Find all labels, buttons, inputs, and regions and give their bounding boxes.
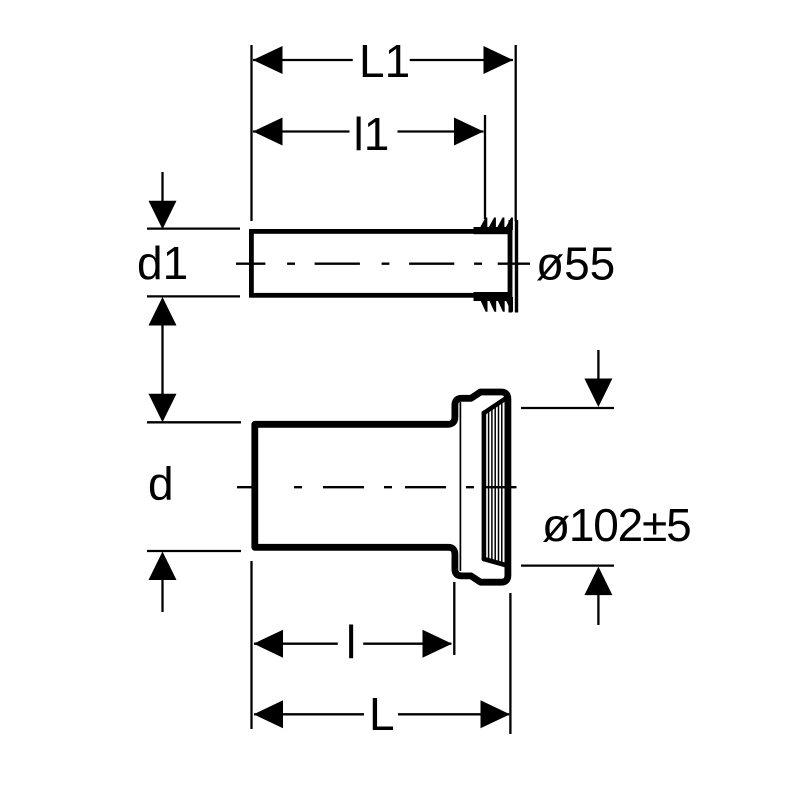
svg-text:d: d bbox=[148, 458, 174, 510]
svg-text:ø55: ø55 bbox=[536, 238, 615, 290]
svg-text:L1: L1 bbox=[359, 35, 410, 87]
svg-text:L: L bbox=[369, 688, 395, 740]
svg-text:l1: l1 bbox=[354, 108, 390, 160]
svg-text:ø102±5: ø102±5 bbox=[542, 499, 690, 551]
svg-text:d1: d1 bbox=[137, 237, 188, 289]
svg-text:l: l bbox=[346, 616, 356, 668]
